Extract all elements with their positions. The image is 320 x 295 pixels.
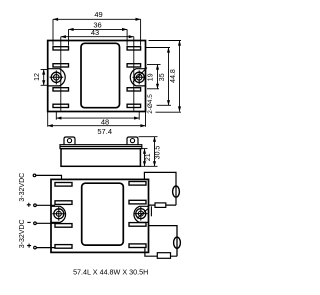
top view left hole pad	[48, 69, 66, 86]
top view slot L2	[53, 64, 69, 67]
svg-text:49: 49	[94, 10, 102, 19]
svg-text:3-32VDC: 3-32VDC	[19, 219, 26, 248]
bottom view slot L2	[55, 201, 72, 205]
side view body	[61, 149, 140, 167]
load resistor bottom	[157, 253, 170, 259]
wire source to load top	[149, 204, 177, 206]
dim 57.4	[48, 112, 146, 127]
svg-text:44.8: 44.8	[170, 69, 177, 83]
top view slot R2	[127, 64, 141, 67]
svg-text:2-Ø4.5: 2-Ø4.5	[147, 94, 154, 114]
dim 43	[61, 36, 134, 38]
load circuit top: wire from terminal 1	[144, 172, 176, 205]
svg-text:21: 21	[145, 153, 152, 161]
top view cover	[81, 43, 120, 107]
dim 36	[69, 29, 128, 45]
hole leader bottom view	[137, 208, 149, 218]
side view left tab	[64, 137, 75, 145]
top view slot L1	[53, 47, 69, 50]
svg-text:3-32VDC: 3-32VDC	[19, 173, 26, 202]
bottom view slot R3	[129, 223, 146, 227]
top view slot L3	[53, 88, 69, 91]
bottom view hole right	[136, 209, 146, 219]
input wire 3 (-)	[34, 222, 55, 225]
svg-text:57.4L X 44.8W X 30.5H: 57.4L X 44.8W X 30.5H	[73, 267, 148, 276]
bottom view slot R1	[129, 182, 146, 186]
top view body outline	[48, 41, 146, 112]
dim 21	[141, 149, 148, 167]
bottom view cover	[82, 183, 124, 245]
dim 19	[147, 65, 161, 89]
side view right tab	[127, 137, 138, 145]
svg-text:12: 12	[34, 73, 41, 81]
dim 44.8	[149, 41, 182, 113]
hole center extension left	[55, 112, 57, 120]
load circuit bottom: wire from terminal 3	[149, 226, 178, 257]
top view slot R1	[127, 47, 141, 50]
dim text 49	[19, 10, 177, 276]
bottom view slot R2	[129, 200, 146, 204]
bottom view slot L3	[55, 224, 72, 228]
dim 48	[56, 117, 139, 119]
top view slot L4	[53, 104, 69, 107]
svg-text:30.5: 30.5	[154, 146, 161, 160]
svg-text:19: 19	[148, 73, 155, 81]
input wire 4 (+)	[34, 246, 55, 249]
side view base plate	[60, 145, 142, 149]
svg-text:48: 48	[101, 118, 109, 127]
AC source bottom	[174, 237, 181, 248]
svg-text:35: 35	[159, 73, 166, 81]
svg-text:57.4: 57.4	[97, 127, 112, 136]
bottom view left hole pad	[51, 206, 66, 222]
top view mounting hole left	[51, 72, 61, 82]
bottom view slot L1	[55, 183, 72, 187]
dim 30.5	[139, 137, 158, 167]
slot centerline left	[60, 37, 62, 111]
AC source top	[173, 186, 180, 197]
bottom view right hole pad	[134, 206, 149, 222]
top view right hole pad	[130, 69, 145, 86]
bottom view slot L4	[55, 245, 72, 249]
dim 49	[53, 19, 141, 46]
polarity plus wire4	[27, 244, 31, 248]
bottom view slot R4	[129, 244, 146, 248]
svg-text:43: 43	[91, 28, 99, 37]
stub line right of body	[150, 206, 152, 216]
bottom view hole left	[54, 209, 64, 219]
hole center extension right	[138, 112, 140, 120]
dim 12	[41, 70, 48, 86]
hole leader line 2-dia4.5	[133, 68, 147, 82]
polarity plus wire2	[27, 203, 31, 207]
load resistor top	[155, 203, 166, 208]
wire source to load bottom	[145, 248, 177, 256]
dim 35	[146, 48, 172, 106]
bottom view body outline	[51, 179, 149, 252]
slot centerline right	[133, 37, 135, 111]
top view slot R4	[127, 104, 141, 107]
input wire 2 (+)	[34, 204, 55, 207]
polarity minus wire3	[27, 221, 30, 223]
top view slot R3	[127, 88, 141, 91]
top view mounting hole right	[134, 72, 144, 82]
input wire 1	[33, 174, 61, 179]
